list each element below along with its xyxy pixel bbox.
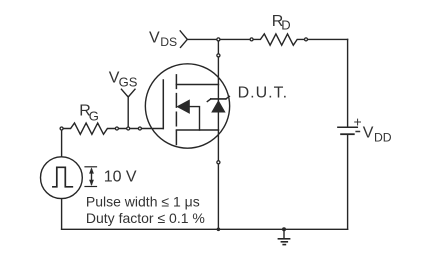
dimension arrowhead down [89,180,94,186]
ground bar 2 [281,241,287,243]
wire pulse source top lead [61,129,63,157]
source bar [176,129,218,131]
wire bottom rail [62,228,348,230]
RD left terminal [250,38,253,41]
wire top: VDS probe tip to RD left terminal [187,38,250,40]
wire source vertical [217,130,219,229]
zener cathode bar [211,98,226,100]
svg-text:G: G [89,108,99,123]
svg-text:+: + [354,114,362,130]
wire right: corner down to battery + plate [347,39,349,126]
drain bar [176,84,218,86]
probe VDS arrow [180,31,187,48]
svg-text:V: V [149,29,160,46]
pulse generator circle [41,157,83,199]
wire battery - plate down to bottom rail [347,135,349,230]
op: MOSFET body circle D.U.T. [145,64,229,148]
body connection to source [190,107,200,130]
junction dot at source/bottom rail [217,228,221,232]
node: drain junction on top wire [217,38,220,41]
ground stub [283,229,285,238]
battery + plate long [338,126,357,128]
body arrow (points left) [176,99,190,114]
svg-text:V: V [363,124,374,141]
RG right terminal [115,127,118,130]
gate bar [162,80,164,129]
MOSFET drain terminal [217,54,220,57]
zener diode triangle (points up) [211,100,225,113]
junction dot at ground connection [282,227,286,231]
dimension arrowhead up [89,167,94,173]
svg-text:10 V: 10 V [104,168,137,185]
RG left terminal [60,127,63,130]
channel dashed line [175,75,177,145]
dimension arrow 10V bottom cap [85,186,97,188]
svg-text:Duty factor ≤ 0.1 %: Duty factor ≤ 0.1 % [86,210,205,226]
battery - sign [355,131,360,133]
ground bar 3 [283,244,285,246]
RD right terminal [305,38,308,41]
wire gate: RG right terminal to gate bar [119,128,164,130]
svg-text:DD: DD [374,130,392,144]
wire VGS probe stem [127,97,129,129]
ground bar 1 [278,238,289,240]
zener hook right [226,96,230,99]
dimension arrow 10V shaft [91,170,93,185]
pulse waveform glyph [53,167,72,187]
dimension arrow 10V top cap [85,166,97,168]
probe VGS arrow [121,89,135,97]
zener hook left [207,99,211,102]
wire top: RD right terminal to top-right corner [307,38,347,40]
svg-text:GS: GS [119,74,138,89]
svg-text:D.U.T.: D.U.T. [238,85,288,102]
resistor RG zigzag [63,123,115,134]
node: VGS junction [127,127,130,130]
MOSFET source terminal [217,161,220,164]
wire drain-source inner vertical through body diode [217,85,219,131]
wire drain vertical [217,39,219,84]
svg-text:DS: DS [160,35,177,49]
svg-text:D: D [281,18,290,33]
MOSFET gate terminal [138,127,141,130]
svg-text:Pulse width ≤ 1 μs: Pulse width ≤ 1 μs [86,194,200,210]
resistor RD zigzag [253,34,305,45]
battery - plate short [341,133,354,135]
wire pulse source bottom lead [61,199,63,230]
